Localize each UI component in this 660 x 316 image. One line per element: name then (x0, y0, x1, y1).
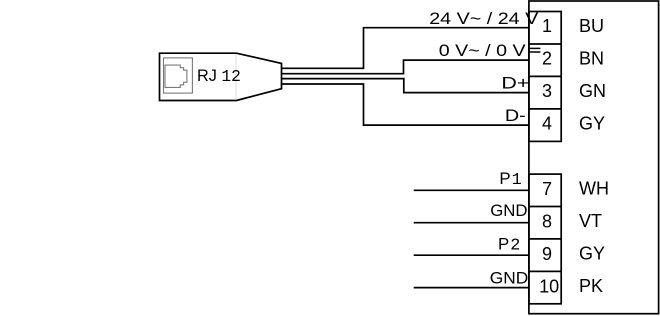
svg-text:4: 4 (542, 114, 552, 134)
svg-text:VT: VT (579, 211, 602, 231)
svg-text:1: 1 (542, 16, 552, 36)
svg-text:D-: D- (505, 106, 526, 125)
svg-text:P: P (498, 234, 509, 253)
svg-text:10: 10 (539, 276, 559, 296)
svg-text:9: 9 (542, 244, 552, 264)
svg-text:1: 1 (512, 171, 522, 190)
svg-text:GN: GN (579, 81, 606, 101)
svg-text:PK: PK (579, 276, 603, 296)
svg-text:2: 2 (510, 236, 520, 255)
svg-text:GND: GND (490, 269, 528, 288)
svg-text:GND: GND (490, 201, 527, 220)
svg-text:P: P (499, 169, 510, 188)
svg-text:3: 3 (542, 81, 552, 101)
svg-text:WH: WH (579, 179, 609, 199)
svg-text:D+: D+ (501, 74, 529, 92)
svg-text:0 V~ / 0 V: 0 V~ / 0 V (439, 40, 527, 59)
svg-text:7: 7 (542, 179, 552, 199)
svg-text:BU: BU (579, 16, 604, 36)
svg-text:12: 12 (221, 67, 240, 86)
svg-text:GY: GY (579, 113, 605, 133)
svg-text:GY: GY (579, 243, 605, 263)
svg-text:2: 2 (542, 49, 552, 69)
svg-text:8: 8 (542, 211, 552, 231)
svg-text:BN: BN (579, 48, 604, 68)
svg-text:RJ: RJ (197, 66, 217, 85)
svg-text:24 V~ / 24 V: 24 V~ / 24 V (429, 8, 539, 27)
